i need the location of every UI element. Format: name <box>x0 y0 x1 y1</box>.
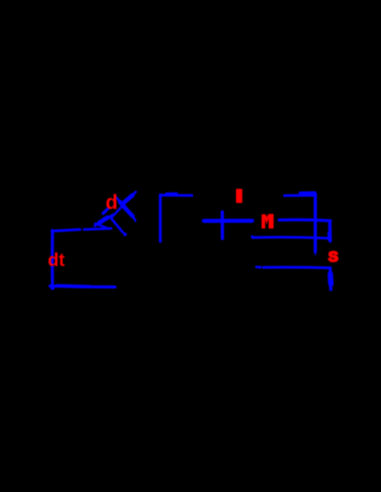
svg-text:dt: dt <box>48 250 65 270</box>
svg-text:d: d <box>106 192 118 214</box>
svg-text:S: S <box>328 248 338 265</box>
